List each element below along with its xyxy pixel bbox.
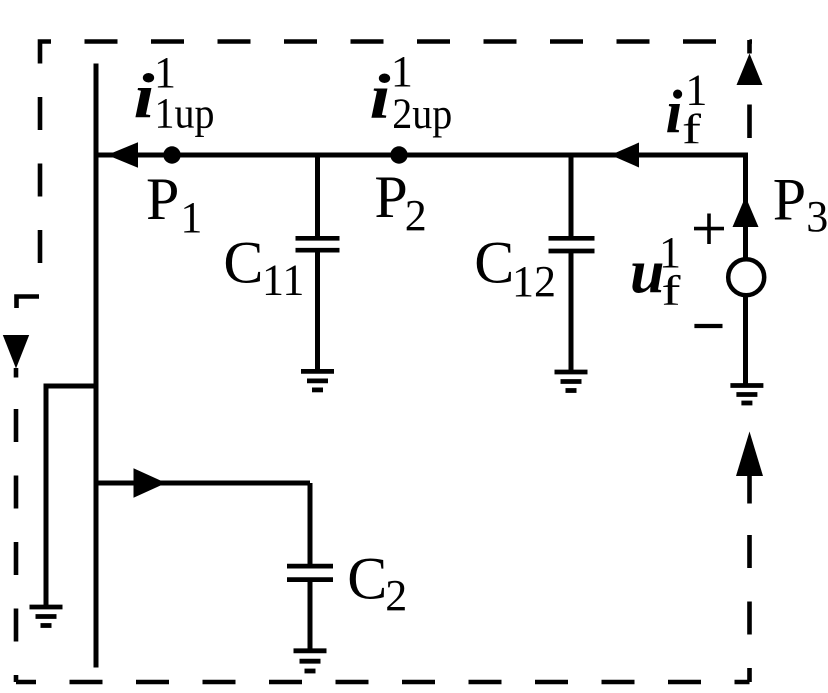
wire: C2 branch horizontal [96,481,310,486]
dashed loop: top and upper-left edge [40,42,752,297]
wire: C2 branch vertical lower [308,581,313,651]
svg-text:f: f [662,269,681,315]
ground (left stub) [30,605,63,610]
svg-text:C: C [347,546,387,612]
svg-text:1: 1 [391,47,413,96]
svg-text:i: i [370,62,392,132]
svg-text:11: 11 [262,256,304,305]
wire: C11 branch lower [315,252,320,371]
svg-text:1: 1 [180,193,202,242]
svg-text:C: C [474,230,514,296]
plus sign of source [694,227,724,231]
dashed loop: lower-left edge [14,378,19,682]
wire: main left vertical bus [94,64,99,668]
ground (C2) [294,648,327,653]
svg-text:P: P [773,167,806,233]
dashed loop: bottom edge [16,680,750,685]
svg-text:i: i [134,61,156,131]
svg-text:P: P [146,166,179,232]
arrow on right dashed edge lower (up) [736,432,763,477]
capacitor C11 plates [296,236,340,241]
svg-text:2: 2 [405,191,427,240]
dashed loop: right edge lower run [747,535,752,682]
wire: source branch upper [743,153,748,259]
arrow on top wire (left, pointing left) [107,142,138,167]
arrow on C2 branch (pointing right) [134,468,167,497]
node P2 dot [390,146,407,163]
dashed loop: left jog corner at y=296 [17,297,40,309]
capacitor C2 plates [287,564,333,569]
arrow on lower-left dashed edge (down) [14,368,19,378]
ground (C12) [555,370,588,375]
dashed loop: right edge upper single dash [747,105,752,139]
svg-text:f: f [682,107,701,153]
arrow on top wire (right, pointing left) [611,143,640,168]
wire: top horizontal [94,153,745,158]
node P1 dot [163,146,180,163]
svg-text:1up: 1up [155,91,215,138]
svg-text:2up: 2up [392,91,452,138]
arrow on right dashed edge near top (up) [737,54,763,86]
dashed loop: right edge top stub [747,40,752,54]
wire: C11 branch upper [315,155,320,236]
svg-text:C: C [223,230,263,296]
capacitor C12 plates [549,236,595,241]
svg-text:i: i [666,79,683,146]
svg-text:P: P [374,164,407,230]
arrow on source branch (up) [733,197,759,228]
wire: C2 branch vertical upper [308,483,313,566]
svg-text:12: 12 [512,257,556,306]
voltage source U circle [728,259,764,295]
wire: C12 branch upper [569,155,574,238]
wire: left stub branch horizontal [46,384,96,389]
ground (C11) [301,369,334,374]
minus sign of source [694,324,722,328]
wire: source branch lower [743,297,748,385]
wire: left stub branch vertical [44,384,49,608]
ground (source branch) [730,383,763,388]
wire: C12 branch lower [569,253,574,372]
svg-text:2: 2 [385,571,407,620]
svg-text:3: 3 [806,192,828,241]
